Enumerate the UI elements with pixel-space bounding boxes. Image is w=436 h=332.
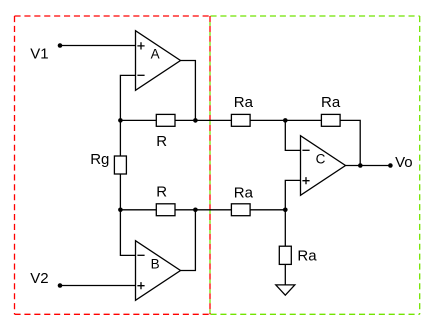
op-amp A plus sign xyxy=(137,42,144,49)
node V1 terminal xyxy=(58,43,63,48)
svg-text:Rg: Rg xyxy=(90,151,109,168)
svg-text:B: B xyxy=(151,256,160,271)
wire top rail middle segment xyxy=(175,119,231,121)
ground xyxy=(276,285,295,295)
svg-text:C: C xyxy=(316,151,326,166)
stage boundary shared edge (red dashes) xyxy=(209,16,211,314)
svg-text:V2: V2 xyxy=(30,270,48,287)
wire node to Rg top xyxy=(119,120,121,156)
node C output junction xyxy=(358,163,363,168)
stage box 2 (green dashed) top edge xyxy=(211,15,420,17)
stage box 1 (red dashed) top edge xyxy=(15,15,211,17)
wire A output xyxy=(181,61,196,121)
stage box 1 (red dashed) bottom edge xyxy=(15,313,211,315)
stage boundary shared edge (green dashes) xyxy=(209,16,211,314)
stage box 2 (green dashed) right edge xyxy=(419,16,421,314)
svg-text:Ra: Ra xyxy=(234,94,254,111)
wire C output to Vo xyxy=(346,165,391,167)
op-amp C minus sign xyxy=(302,149,309,151)
op-amp C xyxy=(301,136,346,196)
wire top rail right segment xyxy=(250,119,322,121)
resistor Ra2 xyxy=(321,114,340,126)
wire node to C- input xyxy=(285,120,300,150)
op-amp B plus sign xyxy=(137,282,144,289)
node Vo terminal xyxy=(388,163,393,168)
wire top rail left segment xyxy=(120,119,156,121)
resistor Ra4 xyxy=(279,246,291,264)
node bottom-left junction xyxy=(118,208,123,213)
svg-text:Ra: Ra xyxy=(234,185,254,202)
wire Ra2 to C output node xyxy=(340,120,360,165)
node top-middle junction xyxy=(193,118,198,123)
stage box 1 (red dashed) left edge xyxy=(14,16,16,314)
resistor Ra1 xyxy=(231,114,250,126)
svg-text:A: A xyxy=(151,46,160,61)
resistor Rg xyxy=(114,156,126,174)
wire bottom rail right segment xyxy=(250,209,286,211)
resistor R2 xyxy=(156,204,175,216)
svg-text:V1: V1 xyxy=(30,46,48,63)
wire bottom rail left segment xyxy=(120,209,156,211)
wire B- feedback to node xyxy=(120,210,135,256)
wire bottom rail middle segment xyxy=(175,209,231,211)
node bottom-middle junction xyxy=(193,208,198,213)
op-amp B xyxy=(136,241,181,301)
svg-text:Ra: Ra xyxy=(297,248,317,265)
svg-text:Ra: Ra xyxy=(321,94,341,111)
resistor R1 xyxy=(156,114,175,126)
op-amp A xyxy=(136,31,181,91)
wire node to Ra4 top xyxy=(284,210,286,246)
wire Rg bottom to node xyxy=(119,174,121,210)
node top-left junction xyxy=(118,118,123,123)
stage box 2 (green dashed) bottom edge xyxy=(211,313,420,315)
svg-text:Vo: Vo xyxy=(395,154,413,171)
wire V1 to A+ xyxy=(60,45,136,47)
wire A- feedback to node xyxy=(120,75,135,120)
node top-right junction xyxy=(283,118,288,123)
op-amp A minus sign xyxy=(137,74,144,76)
resistor Ra3 xyxy=(231,204,250,216)
op-amp C plus sign xyxy=(302,177,309,184)
wire V2 to B+ xyxy=(60,285,136,287)
node V2 terminal xyxy=(58,283,63,288)
svg-text:R: R xyxy=(156,133,167,150)
wire Ra4 bottom to ground xyxy=(284,264,286,285)
svg-text:R: R xyxy=(156,184,167,201)
wire node to C+ input xyxy=(285,180,300,209)
op-amp B minus sign xyxy=(137,254,144,256)
node bottom-right junction xyxy=(283,208,288,213)
wire B output xyxy=(181,210,196,271)
